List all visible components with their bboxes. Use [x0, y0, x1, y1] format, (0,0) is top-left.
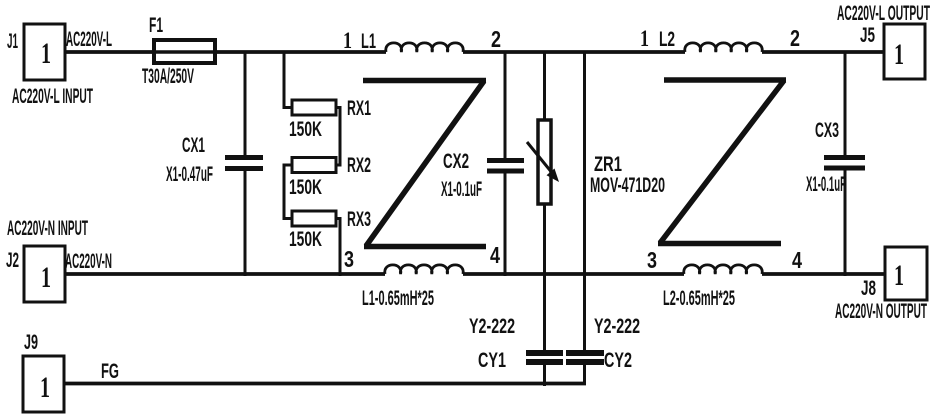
svg-text:AC220V-L OUTPUT: AC220V-L OUTPUT — [837, 2, 930, 25]
resistor RX1 — [292, 100, 336, 115]
svg-text:1: 1 — [41, 37, 51, 70]
svg-text:CY2: CY2 — [604, 349, 632, 372]
svg-text:1: 1 — [41, 261, 51, 294]
svg-text:AC220V-N INPUT: AC220V-N INPUT — [7, 217, 88, 240]
capacitor CY1 — [526, 353, 563, 362]
svg-text:1: 1 — [640, 26, 649, 51]
wire J1 to F1 — [65, 50, 154, 54]
wire CX3 bottom branch — [844, 171, 847, 277]
svg-text:CX1: CX1 — [182, 134, 205, 157]
wire L1 pin4 to L2 pin3 (bottom rail middle) — [463, 272, 684, 276]
svg-text:1: 1 — [40, 371, 50, 404]
svg-text:CX2: CX2 — [443, 150, 469, 173]
svg-text:AC220V-L INPUT: AC220V-L INPUT — [12, 85, 93, 108]
resistor RX2 — [292, 158, 336, 173]
wire CX2 top branch — [504, 51, 507, 159]
svg-text:L1-0.65mH*25: L1-0.65mH*25 — [362, 287, 434, 310]
svg-text:AC220V-L: AC220V-L — [66, 28, 112, 51]
svg-text:3: 3 — [647, 247, 657, 273]
svg-text:X1-0.1uF: X1-0.1uF — [806, 173, 846, 196]
capacitor CX2 — [487, 161, 524, 172]
capacitor CX3 — [824, 158, 865, 169]
svg-text:L2-0.65mH*25: L2-0.65mH*25 — [663, 287, 735, 310]
svg-text:150K: 150K — [289, 176, 322, 199]
wire RX3 to bottom rail — [336, 219, 340, 277]
wire CY2 branch from top rail — [583, 51, 586, 351]
resistor RX3 — [292, 211, 336, 226]
fuse F1 — [154, 40, 215, 63]
connector J9 — [23, 356, 64, 412]
svg-text:2: 2 — [790, 25, 800, 51]
svg-text:FG: FG — [101, 360, 119, 383]
wire L2 pin4 to J8 (bottom rail right) — [762, 272, 885, 276]
svg-text:1: 1 — [894, 38, 904, 71]
svg-text:4: 4 — [490, 242, 500, 268]
svg-text:X1-0.1uF: X1-0.1uF — [441, 178, 482, 201]
wire CY2 to FG rail — [583, 365, 586, 384]
svg-text:1: 1 — [894, 259, 904, 292]
svg-text:RX2: RX2 — [347, 154, 371, 177]
svg-text:L2: L2 — [659, 28, 675, 51]
svg-text:150K: 150K — [289, 228, 322, 251]
wire CX2 bottom branch — [504, 174, 507, 277]
connector J8 — [885, 247, 927, 300]
svg-text:CY1: CY1 — [478, 349, 506, 372]
svg-text:RX1: RX1 — [347, 97, 371, 120]
svg-text:3: 3 — [344, 246, 354, 272]
wire CX1 bottom branch — [244, 171, 247, 276]
svg-text:AC220V-N: AC220V-N — [65, 250, 112, 273]
svg-text:150K: 150K — [289, 118, 322, 141]
wire RX1 to RX2 — [336, 108, 340, 166]
wire CY1 to FG rail — [543, 365, 546, 386]
varistor ZR1 — [527, 120, 559, 204]
inductor L2 winding top — [685, 43, 762, 52]
svg-text:Y2-222: Y2-222 — [469, 315, 515, 338]
svg-text:J9: J9 — [24, 331, 38, 354]
choke core L2 (Z symbol) — [658, 80, 786, 244]
svg-text:J5: J5 — [860, 24, 875, 47]
capacitor CX1 — [225, 158, 263, 169]
svg-text:Y2-222: Y2-222 — [594, 315, 640, 338]
wire J2 to L1 pin3 (bottom rail left) — [65, 272, 385, 276]
svg-text:MOV-471D20: MOV-471D20 — [590, 174, 665, 197]
svg-text:T30A/250V: T30A/250V — [142, 65, 194, 88]
connector J5 — [884, 24, 925, 79]
inductor L1 winding top — [386, 43, 463, 52]
capacitor CY2 — [566, 353, 604, 362]
svg-text:J2: J2 — [6, 249, 19, 272]
svg-text:ZR1: ZR1 — [594, 153, 622, 176]
wire top rail to RX1 — [284, 51, 292, 108]
svg-text:J8: J8 — [861, 277, 876, 300]
choke core L1 (Z symbol) — [363, 81, 486, 247]
wire L1 pin2 to L2 pin1 — [463, 50, 685, 54]
svg-text:RX3: RX3 — [347, 208, 371, 231]
svg-text:4: 4 — [792, 247, 802, 273]
svg-text:AC220V-N OUTPUT: AC220V-N OUTPUT — [835, 300, 927, 323]
svg-text:CX3: CX3 — [815, 119, 839, 142]
connector J2 — [24, 246, 65, 302]
svg-text:L1: L1 — [361, 30, 376, 53]
wire ZR1 top branch — [543, 51, 546, 121]
wire CX3 top branch — [844, 51, 847, 156]
wire J9 to CY2 (FG rail) — [64, 382, 586, 386]
wire L2 pin2 to J5 — [762, 50, 884, 54]
wire CX1 top branch — [244, 51, 247, 157]
svg-text:J1: J1 — [7, 30, 18, 53]
svg-text:2: 2 — [491, 26, 501, 52]
inductor L1 winding bottom — [385, 265, 463, 274]
inductor L2 winding bottom — [684, 265, 762, 274]
svg-text:X1-0.47uF: X1-0.47uF — [166, 163, 213, 186]
wire RX2 to RX3 — [284, 165, 292, 219]
connector J1 — [24, 24, 65, 80]
svg-text:F1: F1 — [149, 14, 163, 37]
wire F1 to L1 pin1 — [215, 50, 386, 54]
svg-text:1: 1 — [343, 28, 352, 53]
wire ZR1 to bottom rail and CY1 — [543, 204, 546, 350]
